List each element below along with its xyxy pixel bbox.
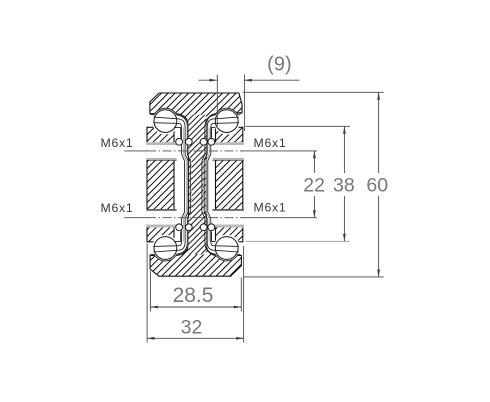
dimension 28.5 [150,271,241,312]
svg-text:38: 38 [333,175,355,197]
right side block [216,127,243,242]
svg-text:32: 32 [181,317,203,339]
svg-text:28.5: 28.5 [173,284,214,307]
dimension 38 [246,126,350,241]
svg-text:22: 22 [303,175,325,197]
ball pockets (white clearance) [152,108,240,262]
small balls top row [176,138,215,145]
M6 hole band top-right [213,142,244,160]
outer housing: top flange + funnels + bottom flange (hatched) [150,93,242,276]
M6x1 labels [101,136,287,215]
block raceway step lines [174,127,216,241]
big ball top-left [154,110,177,133]
dimension 22 [242,151,317,218]
left side block [147,127,174,242]
M6 hole band bottom-left [146,209,176,227]
left raceway sheets (outer, middle, inner) [150,108,190,261]
svg-text:M6x1: M6x1 [254,201,287,215]
svg-text:60: 60 [366,175,388,197]
big ball bottom-right [215,237,238,260]
centerline top M6 (dash-dot) [124,150,243,152]
big ball bottom-left [154,237,177,260]
dimension 60 [243,92,384,277]
big ball top-right [215,110,238,133]
centerline bottom M6 [124,217,243,219]
svg-text:(9): (9) [267,54,291,76]
svg-text:M6x1: M6x1 [101,136,134,150]
M6 hole band bottom-right [213,209,244,227]
small balls bottom row [176,224,215,231]
center web (inner member, denser hatch) [188,115,206,255]
dimension (9) [199,75,300,132]
dimension 32 [147,244,244,343]
svg-text:M6x1: M6x1 [101,201,134,215]
right raceway sheets [202,108,242,261]
svg-text:M6x1: M6x1 [254,136,287,150]
M6 hole band top-left [146,142,176,160]
